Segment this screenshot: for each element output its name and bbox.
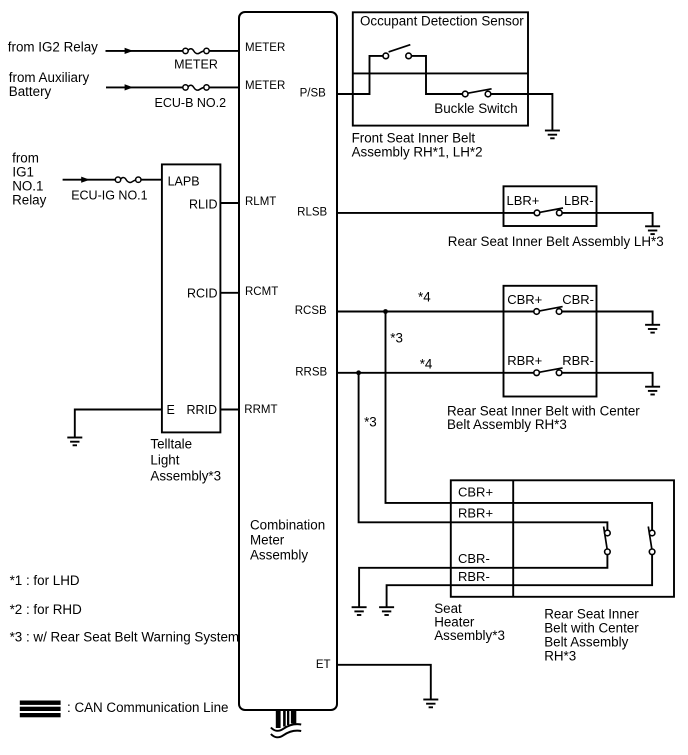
ground for telltale E bbox=[67, 438, 82, 446]
svg-text:Rear Seat Inner Belt Assembly: Rear Seat Inner Belt Assembly LH*3 bbox=[448, 234, 664, 249]
fuse ECU-IG NO.1 bbox=[71, 177, 147, 203]
svg-text:Assembly*3: Assembly*3 bbox=[150, 468, 221, 483]
svg-text:ECU-B NO.2: ECU-B NO.2 bbox=[155, 96, 227, 110]
switch right (CBR+/RBR-) bbox=[648, 527, 655, 555]
wire RRSB drop to RBR+ (seat heater) bbox=[359, 373, 608, 531]
ground for CBR- bbox=[352, 607, 367, 615]
wire from auxiliary battery to ECU-B NO.2 fuse bbox=[106, 86, 239, 88]
svg-text:E: E bbox=[167, 403, 175, 417]
svg-text:LAPB: LAPB bbox=[168, 174, 200, 188]
svg-text:METER: METER bbox=[245, 42, 285, 54]
ground for RBR- bbox=[379, 607, 394, 615]
svg-text:*4: *4 bbox=[420, 357, 433, 372]
wire occupant switch to buckle switch bbox=[411, 56, 462, 94]
label Rear Seat Inner Belt with Center Belt Assembly RH*3 (upper) bbox=[447, 403, 640, 432]
svg-text:Belt Assembly: Belt Assembly bbox=[544, 635, 628, 650]
svg-text:Battery: Battery bbox=[9, 84, 52, 99]
svg-text:IG1: IG1 bbox=[12, 165, 34, 180]
ground for CBR row bbox=[645, 325, 660, 333]
svg-text:*2 : for RHD: *2 : for RHD bbox=[10, 602, 83, 617]
svg-text:RCMT: RCMT bbox=[245, 286, 278, 298]
wire from IG2 relay to METER fuse bbox=[106, 50, 240, 52]
occupant detection switch bbox=[383, 45, 411, 59]
wire E to ground bbox=[75, 410, 162, 438]
ground for rear seat inner belt LH bbox=[645, 226, 660, 234]
svg-text:RRMT: RRMT bbox=[244, 404, 277, 416]
svg-text:*3 : w/ Rear Seat Belt Warning: *3 : w/ Rear Seat Belt Warning System bbox=[10, 629, 239, 644]
seat heater assembly / rear seat inner belt with center box (lower) bbox=[451, 480, 674, 597]
combination meter assembly box U1 bbox=[239, 12, 337, 710]
svg-text:Occupant Detection Sensor: Occupant Detection Sensor bbox=[360, 14, 524, 29]
wire P/SB to occupant detection switch bbox=[337, 56, 383, 94]
svg-text:RCID: RCID bbox=[187, 287, 218, 301]
svg-text:CBR-: CBR- bbox=[458, 551, 490, 566]
CAN bus symbol below combination meter bbox=[271, 711, 301, 738]
svg-text:Relay: Relay bbox=[12, 193, 47, 208]
svg-text:RLMT: RLMT bbox=[245, 196, 276, 208]
ground for front seat inner belt bbox=[545, 131, 560, 139]
switch RBR bbox=[534, 368, 563, 376]
wire RCID to RCMT bbox=[220, 292, 239, 294]
label Telltale Light Assembly*3 bbox=[150, 436, 221, 483]
svg-text:RBR-: RBR- bbox=[562, 353, 594, 368]
svg-text:Assembly*3: Assembly*3 bbox=[434, 628, 505, 643]
svg-text:Rear Seat Inner: Rear Seat Inner bbox=[544, 607, 639, 622]
wire LBR- to ground bbox=[562, 213, 653, 226]
junction on RCSB wire bbox=[383, 309, 388, 314]
wire RBR- to ground bbox=[562, 373, 653, 387]
svg-text:RLSB: RLSB bbox=[297, 206, 327, 218]
wire ET to ground bbox=[337, 665, 431, 700]
switch LBR bbox=[534, 208, 563, 216]
svg-text:RBR+: RBR+ bbox=[507, 353, 542, 368]
svg-text:RBR-: RBR- bbox=[458, 569, 490, 584]
svg-text:from IG2 Relay: from IG2 Relay bbox=[8, 39, 98, 54]
svg-text:ET: ET bbox=[316, 659, 331, 671]
svg-text:Light: Light bbox=[150, 453, 179, 468]
svg-text:NO.1: NO.1 bbox=[12, 179, 43, 194]
svg-text:Telltale: Telltale bbox=[150, 436, 192, 451]
svg-text:RRSB: RRSB bbox=[295, 366, 327, 378]
arrow on IG1 wire bbox=[81, 177, 90, 183]
wire RBR- from right switch to ground bbox=[387, 555, 652, 608]
fuse METER bbox=[174, 48, 218, 71]
svg-text:RBR+: RBR+ bbox=[458, 506, 493, 521]
ground for ET bbox=[423, 700, 438, 708]
label Combination Meter Assembly bbox=[250, 517, 325, 562]
text from IG1 NO.1 Relay bbox=[12, 150, 47, 207]
svg-text:Assembly RH*1, LH*2: Assembly RH*1, LH*2 bbox=[352, 144, 483, 159]
svg-text:CBR-: CBR- bbox=[562, 292, 594, 307]
wire RCSB drop to CBR+ (seat heater) bbox=[386, 312, 653, 531]
fuse ECU-B NO.2 bbox=[155, 85, 227, 110]
junction on RRSB wire bbox=[356, 370, 361, 375]
svg-text:P/SB: P/SB bbox=[300, 88, 327, 100]
svg-text:from: from bbox=[12, 150, 39, 165]
arrow on auxiliary battery wire bbox=[125, 84, 134, 90]
telltale light assembly box bbox=[162, 164, 221, 432]
svg-text:Assembly: Assembly bbox=[250, 548, 308, 563]
svg-text:Meter: Meter bbox=[250, 532, 285, 547]
label Front Seat Inner Belt Assembly RH*1, LH*2 bbox=[352, 130, 483, 159]
svg-text:ECU-IG NO.1: ECU-IG NO.1 bbox=[71, 189, 147, 203]
svg-text:*3: *3 bbox=[390, 330, 403, 345]
svg-text:: CAN Communication Line: : CAN Communication Line bbox=[67, 700, 229, 715]
svg-text:LBR-: LBR- bbox=[564, 193, 594, 208]
switch left (RBR+/CBR-) bbox=[604, 527, 611, 555]
svg-text:RRID: RRID bbox=[186, 403, 217, 417]
svg-text:CBR+: CBR+ bbox=[458, 485, 493, 500]
rear seat inner belt with center belt assembly RH box (upper) bbox=[504, 286, 597, 397]
svg-text:RH*3: RH*3 bbox=[544, 649, 576, 664]
svg-text:METER: METER bbox=[174, 57, 218, 71]
svg-text:*3: *3 bbox=[364, 415, 377, 430]
label Seat Heater Assembly*3 bbox=[434, 601, 505, 643]
wire RRSB to RBR switch bbox=[337, 372, 534, 374]
switch CBR bbox=[534, 307, 563, 315]
CAN communication line legend symbol bbox=[20, 701, 61, 718]
svg-text:RLID: RLID bbox=[189, 197, 217, 211]
wire buckle switch to ground bbox=[491, 94, 553, 131]
svg-text:*1 : for LHD: *1 : for LHD bbox=[10, 573, 80, 588]
svg-text:Combination: Combination bbox=[250, 517, 325, 532]
rear seat inner belt assembly LH box bbox=[504, 186, 597, 226]
label Rear Seat Inner Belt with Center Belt Assembly RH*3 (lower) bbox=[544, 607, 639, 664]
svg-text:METER: METER bbox=[245, 80, 285, 92]
svg-text:Belt with Center: Belt with Center bbox=[544, 621, 639, 636]
svg-text:LBR+: LBR+ bbox=[507, 193, 540, 208]
wire CBR- from left switch to ground bbox=[359, 555, 607, 608]
svg-text:RCSB: RCSB bbox=[295, 305, 327, 317]
text from Auxiliary Battery bbox=[9, 70, 90, 99]
svg-text:Belt Assembly RH*3: Belt Assembly RH*3 bbox=[447, 417, 567, 432]
occupant detection sensor / front seat inner belt box bbox=[353, 12, 528, 125]
svg-text:Front Seat Inner Belt: Front Seat Inner Belt bbox=[352, 130, 476, 145]
wire from IG1 relay to ECU-IG NO.1 fuse to LAPB bbox=[63, 179, 162, 181]
svg-text:from Auxiliary: from Auxiliary bbox=[9, 70, 90, 85]
wire CBR- to ground bbox=[562, 312, 653, 325]
svg-text:CBR+: CBR+ bbox=[507, 292, 542, 307]
wire RLSB to LBR switch bbox=[337, 212, 534, 214]
arrow on IG2 wire bbox=[125, 48, 134, 54]
svg-text:*4: *4 bbox=[418, 290, 431, 305]
svg-text:Buckle Switch: Buckle Switch bbox=[434, 101, 517, 116]
wire RRID to RRMT bbox=[220, 409, 239, 411]
buckle switch bbox=[462, 89, 491, 97]
wire RLID to RLMT bbox=[220, 202, 239, 204]
wire RCSB to CBR switch bbox=[337, 311, 534, 313]
ground for RBR row bbox=[645, 387, 660, 395]
